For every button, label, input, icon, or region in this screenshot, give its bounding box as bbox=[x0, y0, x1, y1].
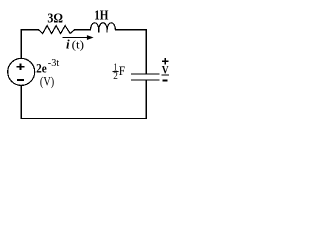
wire resistor to inductor bbox=[75, 29, 91, 31]
capacitor C1 value fraction bar bbox=[113, 71, 119, 72]
wire right vertical upper bbox=[145, 30, 147, 74]
wire top-left horizontal bbox=[21, 29, 38, 31]
svg-text:i: i bbox=[66, 36, 70, 51]
wire left vertical upper bbox=[20, 30, 22, 59]
wire bottom horizontal bbox=[21, 117, 146, 119]
capacitor voltage label V underline bbox=[162, 74, 169, 76]
wire left vertical lower bbox=[20, 85, 22, 118]
svg-text:(t): (t) bbox=[72, 37, 84, 51]
voltage source VS1 circle bbox=[8, 58, 35, 85]
resistor R1 (3 ohm) zigzag bbox=[39, 26, 75, 34]
capacitor voltage minus polarity mark bbox=[162, 79, 167, 81]
svg-text:(V): (V) bbox=[40, 74, 54, 88]
svg-text:1H: 1H bbox=[94, 8, 108, 23]
current direction arrow for i(t) bbox=[62, 35, 93, 40]
wire inductor to top-right corner bbox=[115, 29, 146, 31]
capacitor C1 (1/2 F) top plate bbox=[132, 73, 159, 75]
voltage source VS1 minus polarity mark bbox=[17, 79, 24, 81]
svg-text:2: 2 bbox=[113, 70, 118, 82]
capacitor C1 (1/2 F) bottom plate bbox=[132, 79, 159, 81]
inductor L1 cusp ticks bbox=[99, 30, 107, 32]
wire right vertical lower bbox=[145, 81, 147, 119]
svg-text:2e: 2e bbox=[36, 60, 47, 75]
inductor L1 (1 H) humps bbox=[91, 23, 116, 30]
voltage source VS1 plus polarity mark bbox=[17, 63, 25, 70]
capacitor voltage plus polarity mark bbox=[162, 58, 168, 65]
svg-text:3Ω: 3Ω bbox=[47, 11, 63, 26]
svg-text:F: F bbox=[119, 64, 126, 78]
svg-text:-3t: -3t bbox=[48, 57, 59, 69]
